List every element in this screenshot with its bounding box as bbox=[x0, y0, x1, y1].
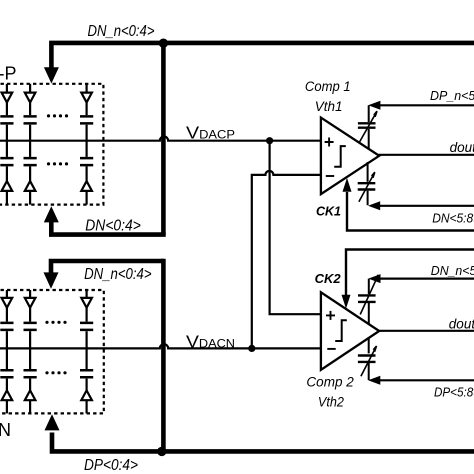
varactor top of Comp1: lead bbox=[368, 105, 370, 122]
wire: DP<5:8> line bbox=[378, 379, 474, 381]
arrowhead DN_n<5:8> bbox=[368, 274, 380, 283]
wire: VDACN net with hop over thick vertical bbox=[0, 344, 321, 348]
svg-text:DN_n<0:4>: DN_n<0:4> bbox=[88, 23, 155, 40]
varactor bottom of Comp1: upper lead bbox=[367, 162, 369, 182]
arrowhead CK2 into Comp2 bbox=[342, 295, 351, 309]
varactor top of Comp1: plates bbox=[358, 123, 376, 127]
arrowhead into DAC-N top bbox=[44, 272, 59, 288]
DAC-N dashed box bbox=[0, 290, 104, 413]
wire: thick vertical down to bottom bus bbox=[161, 259, 166, 452]
capacitor column 1 of DAC-N bbox=[0, 290, 13, 413]
minus sign Comp1 bbox=[326, 175, 334, 177]
svg-text:CK1: CK1 bbox=[316, 204, 341, 219]
varactor bottom of Comp2: lower lead bbox=[368, 363, 370, 380]
svg-text:CK2: CK2 bbox=[315, 271, 342, 286]
wire: VDACP to Comp2 plus input bbox=[270, 141, 321, 315]
node: junction dot on bottom bus bbox=[157, 447, 166, 456]
varactor bottom of Comp2: upper lead bbox=[368, 337, 370, 353]
varactor top of Comp1: arrow bbox=[360, 111, 377, 142]
svg-text:DP<5:8>: DP<5:8> bbox=[434, 384, 474, 399]
wire: CK1 clock line bbox=[347, 192, 474, 231]
wire: DP_n<5:8> line bbox=[378, 104, 474, 106]
arrowhead into DAC-P bottom bbox=[44, 206, 59, 222]
svg-text:DN<5:8>: DN<5:8> bbox=[432, 211, 474, 226]
ellipsis dots DAC-P lower row bbox=[47, 162, 68, 165]
varactor top of Comp1: lower lead bbox=[368, 129, 370, 149]
op-amp U1 Comp 1 triangle bbox=[321, 118, 379, 195]
ellipsis dots DAC-N lower row bbox=[45, 371, 66, 374]
varactor top of Comp2: lead bbox=[368, 279, 370, 294]
svg-text:Comp 1: Comp 1 bbox=[305, 79, 351, 94]
varactor bottom of Comp1: plates bbox=[358, 183, 376, 189]
varactor top of Comp2: plates bbox=[358, 295, 376, 302]
wire: DN_n<0:4> line above DAC-N bbox=[51, 261, 163, 274]
wire: CK2 clock line bbox=[346, 250, 474, 297]
wire: DP<0:4> bottom bus bbox=[52, 433, 474, 452]
svg-text:DN_n<0:4>: DN_n<0:4> bbox=[84, 266, 152, 283]
svg-text:DP_n<5:8>: DP_n<5:8> bbox=[430, 88, 474, 103]
op-amp U2 Comp 2 triangle bbox=[321, 292, 379, 370]
varactor top of Comp2: lower lead bbox=[368, 303, 370, 324]
wire: dout of Comp2 bbox=[379, 330, 474, 332]
varactor bottom of Comp1: arrow bbox=[359, 172, 375, 202]
ellipsis dots DAC-N upper row bbox=[45, 321, 66, 324]
varactor bottom of Comp1: lower lead bbox=[367, 191, 369, 206]
capacitor column 2 of DAC-P bbox=[24, 84, 37, 205]
arrowhead DN<5:8> bbox=[368, 201, 380, 210]
svg-text:Vth1: Vth1 bbox=[315, 99, 343, 114]
arrowhead into DAC-N bottom bbox=[45, 414, 60, 430]
wire: dout of Comp1 bbox=[379, 154, 474, 156]
varactor bottom of Comp2: plates bbox=[358, 356, 376, 362]
plus sign Comp2 bbox=[326, 311, 335, 320]
varactor bottom of Comp2: arrow bbox=[361, 346, 377, 376]
svg-text:DP<0:4>: DP<0:4> bbox=[84, 457, 138, 474]
wire: DN_n<0:4> top bus with left corner into DAC-P bbox=[51, 43, 474, 68]
arrowhead CK1 into Comp1 bbox=[343, 178, 352, 192]
varactor top of Comp2: arrow bbox=[360, 275, 378, 315]
capacitor column 3 of DAC-N bbox=[80, 290, 93, 413]
wire: VDACP net with hop over thick vertical bbox=[0, 137, 321, 141]
svg-text:dout: dout bbox=[449, 316, 474, 331]
svg-text:N: N bbox=[0, 420, 11, 440]
svg-text:Comp 2: Comp 2 bbox=[306, 375, 354, 390]
ellipsis dots DAC-P upper row bbox=[47, 114, 68, 117]
arrowhead DP<5:8> bbox=[368, 376, 380, 385]
arrowhead DP_n<5:8> bbox=[368, 101, 380, 110]
wire: thick vertical from top bus down bbox=[161, 43, 166, 235]
minus sign Comp2 bbox=[327, 348, 335, 350]
latch step symbol Comp2 bbox=[335, 320, 347, 341]
wire: DN_n<5:8> line bbox=[378, 278, 474, 280]
arrowhead into DAC-P top bbox=[44, 67, 59, 83]
node: junction dot on top bus bbox=[159, 39, 168, 48]
plus sign Comp1 bbox=[325, 138, 334, 147]
svg-text:DN_n<5:8>: DN_n<5:8> bbox=[431, 263, 474, 278]
wire: DN<0:4> line under DAC-P bbox=[51, 222, 165, 235]
latch step symbol Comp1 bbox=[334, 146, 346, 167]
node: VDACP junction dot bbox=[266, 137, 273, 144]
svg-text:DN<0:4>: DN<0:4> bbox=[85, 217, 141, 234]
svg-text:Vth2: Vth2 bbox=[318, 395, 344, 410]
node: VDACN junction dot bbox=[248, 345, 255, 352]
svg-text:dout: dout bbox=[450, 140, 474, 155]
DAC-P dashed box bbox=[0, 84, 103, 205]
wire: VDACN to Comp1 minus input (hop over cross wire) bbox=[252, 171, 321, 349]
capacitor column 3 of DAC-P bbox=[80, 84, 93, 205]
capacitor column 2 of DAC-N bbox=[24, 290, 37, 413]
wire: DN<5:8> line bbox=[378, 205, 474, 207]
svg-text:-P: -P bbox=[0, 64, 17, 84]
capacitor column 1 of DAC-P bbox=[0, 84, 13, 205]
